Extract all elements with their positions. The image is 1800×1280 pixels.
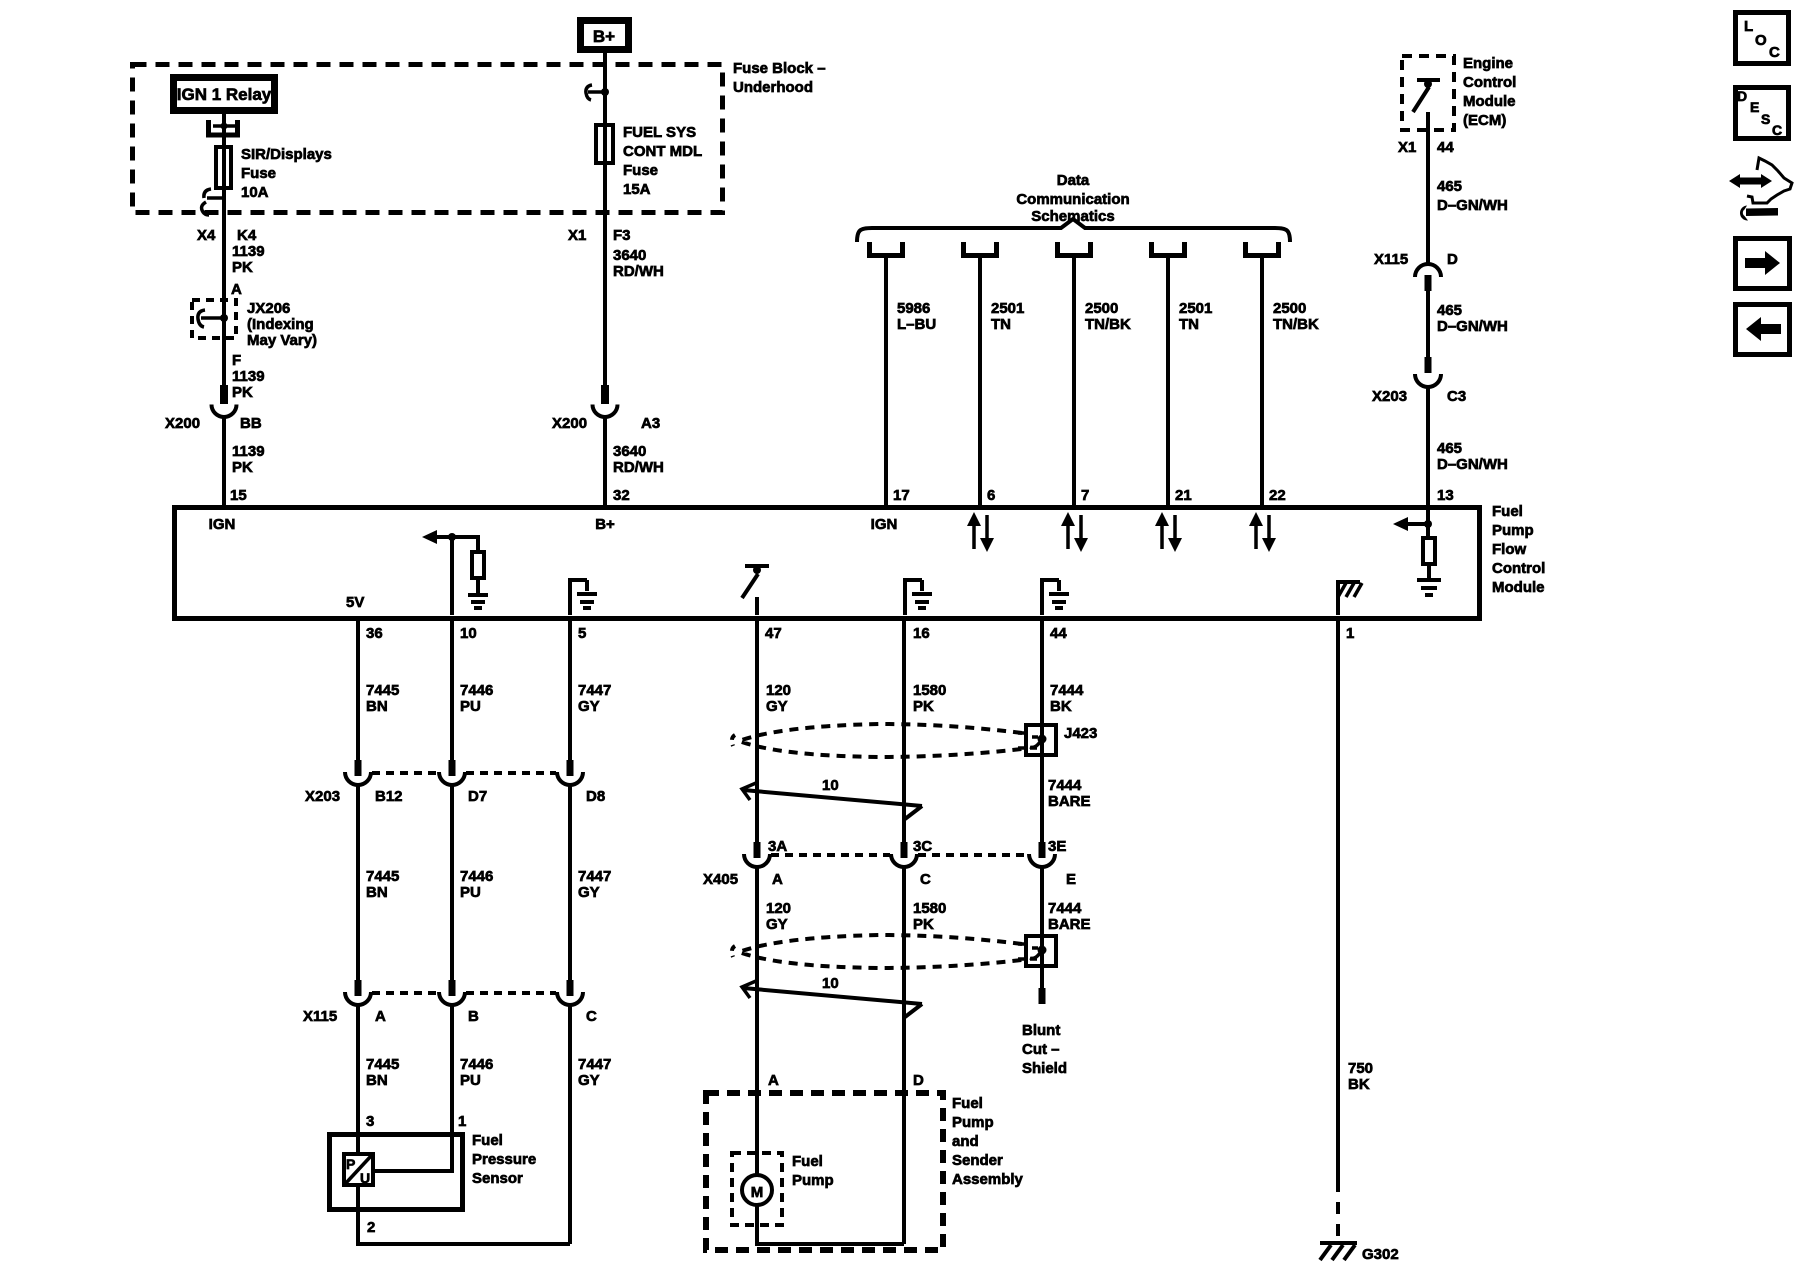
svg-text:SIR/Displays: SIR/Displays: [241, 146, 332, 163]
label Fuse Block Underhood: [733, 60, 826, 96]
label A D above assembly: [768, 1072, 924, 1089]
connector X405 C cup: [891, 854, 917, 867]
label 3A 3C 3E: [768, 838, 1066, 855]
svg-text:Control: Control: [1463, 74, 1516, 91]
label 7447 GY b: [578, 868, 611, 901]
internal sense branch at pin 13: [1393, 510, 1432, 536]
svg-text:1580: 1580: [913, 682, 946, 699]
wire 1580 PK X405 down: [902, 865, 906, 1244]
label JX206 Indexing May Vary: [247, 300, 317, 349]
sensor element P/U square: [344, 1154, 373, 1186]
connector X405 3E tick: [1039, 842, 1046, 858]
svg-text:1580: 1580: [913, 900, 946, 917]
connector X200 BB cup: [212, 405, 237, 418]
svg-text:TN: TN: [991, 316, 1011, 333]
wire 1580 PK pin16 to X405: [902, 621, 906, 843]
internal ground at pin 16: [905, 580, 932, 615]
label X1 44: [1398, 139, 1454, 156]
relay output bracket: [209, 120, 238, 135]
label 7446 PU a: [460, 682, 493, 715]
connector X115 B tick: [449, 980, 456, 996]
svg-text:(ECM): (ECM): [1463, 112, 1506, 129]
svg-text:Sensor: Sensor: [472, 1170, 523, 1187]
svg-text:Fuse: Fuse: [241, 165, 276, 182]
connector X405 3C tick: [901, 842, 908, 858]
svg-text:X115: X115: [1374, 251, 1408, 268]
icon forward arrow box: [1736, 239, 1790, 289]
svg-text:Communication: Communication: [1016, 191, 1129, 208]
svg-text:Engine: Engine: [1463, 55, 1513, 72]
svg-text:BN: BN: [366, 698, 388, 715]
terminal hook at B+ feed: [586, 85, 609, 100]
pin 44 label: [1050, 625, 1067, 642]
internal ground at pin 13: [1417, 564, 1441, 595]
terminal hook below fuse F1: [202, 189, 224, 215]
svg-text:5986: 5986: [897, 300, 930, 317]
label 3640 RD/WH upper: [613, 247, 664, 280]
svg-text:B: B: [468, 1008, 479, 1025]
svg-text:15: 15: [230, 487, 247, 504]
battery feed B+ box: [581, 21, 629, 50]
label X405 A C E: [703, 871, 1076, 888]
connector X115 A cup: [345, 992, 371, 1005]
svg-text:D8: D8: [586, 788, 605, 805]
svg-text:BK: BK: [1348, 1076, 1370, 1093]
svg-text:GY: GY: [578, 884, 600, 901]
twisted pair marker 2: [742, 981, 922, 1017]
svg-text:X1: X1: [568, 227, 586, 244]
internal updown arrows pin 6: [967, 512, 994, 552]
wire 120 GY X405 to pump: [755, 865, 759, 1176]
label 1139 PK upper: [232, 243, 265, 276]
svg-text:Module: Module: [1492, 579, 1545, 596]
connector X203 D8 tick: [567, 760, 574, 776]
label 2501 TN b: [1179, 300, 1212, 333]
svg-text:Cut –: Cut –: [1022, 1041, 1060, 1058]
svg-text:Assembly: Assembly: [952, 1171, 1024, 1188]
svg-text:B12: B12: [375, 788, 403, 805]
data bracket 4: [1152, 242, 1185, 256]
pin 21 label: [1175, 487, 1192, 504]
label X200 BB: [165, 415, 262, 432]
label 120 GY a: [766, 682, 791, 715]
data bracket 2: [964, 242, 997, 256]
svg-text:D: D: [1737, 88, 1747, 104]
svg-text:B+: B+: [595, 516, 615, 533]
port label IGN pin17: [871, 516, 898, 533]
svg-text:A: A: [375, 1008, 386, 1025]
label 7447 GY c: [578, 1056, 611, 1089]
svg-text:465: 465: [1437, 440, 1462, 457]
svg-text:120: 120: [766, 682, 791, 699]
label X203 B12 D7 D8: [305, 788, 605, 805]
svg-text:Underhood: Underhood: [733, 79, 813, 96]
svg-text:(Indexing: (Indexing: [247, 316, 314, 333]
pin 17 label: [893, 487, 910, 504]
svg-text:21: 21: [1175, 487, 1192, 504]
connector X203 C3 male tick: [1425, 357, 1432, 373]
svg-text:X4: X4: [197, 227, 216, 244]
svg-text:7: 7: [1081, 487, 1089, 504]
connector X405 3A tick: [754, 842, 761, 858]
svg-text:Fuel: Fuel: [1492, 503, 1523, 520]
svg-text:5V: 5V: [346, 594, 364, 611]
module Fuel Pump Flow Control Module box: [175, 508, 1480, 619]
label Fuel Pressure Sensor: [472, 1132, 536, 1187]
wire 7446 PU pin10 to X203: [450, 621, 454, 761]
svg-text:7446: 7446: [460, 868, 493, 885]
wire 7444 BK pin44 to X405: [1040, 621, 1044, 843]
svg-text:465: 465: [1437, 302, 1462, 319]
internal switch at pin 47: [742, 566, 769, 615]
switch inside ECM: [1413, 80, 1440, 112]
pin 47 label: [765, 625, 782, 642]
data wire 2500 TN/BK a: [1072, 258, 1076, 507]
svg-text:7445: 7445: [366, 1056, 399, 1073]
shield junction box J423 upper: [1018, 725, 1056, 755]
pin 7 label: [1081, 487, 1089, 504]
svg-text:C: C: [586, 1008, 597, 1025]
svg-text:G302: G302: [1362, 1246, 1399, 1263]
pin 6 label: [987, 487, 995, 504]
wire 7447 GY X115 down to joint: [568, 1003, 572, 1244]
wire 465 D-GN/WH from X115 to X203: [1426, 291, 1430, 357]
label Fuel Pump Flow Control Module: [1492, 503, 1545, 596]
label G302: [1362, 1246, 1399, 1263]
svg-text:BN: BN: [366, 884, 388, 901]
svg-text:15A: 15A: [623, 181, 651, 198]
label 7446 PU b: [460, 868, 493, 901]
svg-text:1: 1: [1346, 625, 1354, 642]
svg-text:A: A: [768, 1072, 779, 1089]
connector X203 C3 cup: [1415, 374, 1441, 387]
icon LOC box: [1736, 13, 1789, 64]
svg-text:A: A: [772, 871, 783, 888]
wire 465 D-GN/WH from X203 to module pin 13: [1426, 385, 1430, 507]
icon back arrow box: [1736, 305, 1790, 355]
internal resistor at pin 13: [1423, 538, 1435, 564]
svg-text:Flow: Flow: [1492, 541, 1526, 558]
svg-text:465: 465: [1437, 178, 1462, 195]
svg-text:7444: 7444: [1050, 682, 1084, 699]
data wire 2500 TN/BK b: [1260, 258, 1264, 507]
wire pump to joint: [757, 1205, 904, 1244]
svg-text:47: 47: [765, 625, 782, 642]
svg-text:A: A: [231, 281, 242, 298]
svg-text:O: O: [1755, 32, 1767, 49]
label 1580 PK a: [913, 682, 946, 715]
pin 5 label: [578, 625, 586, 642]
label 5986 L-BU: [897, 300, 936, 333]
svg-text:5: 5: [578, 625, 586, 642]
wire 7445 BN X203 to X115: [356, 783, 360, 981]
wire 7447 GY pin5 to X203: [568, 621, 572, 761]
wire 750 BK pin1 to G302: [1336, 621, 1340, 1242]
svg-text:Fuel: Fuel: [952, 1095, 983, 1112]
connector X203 D7 cup: [439, 772, 465, 785]
svg-text:S: S: [1761, 111, 1770, 127]
svg-text:7447: 7447: [578, 1056, 611, 1073]
svg-text:36: 36: [366, 625, 383, 642]
relay IGN 1 Relay box: [174, 78, 275, 111]
label 7445 BN c: [366, 1056, 399, 1089]
label 120 GY b: [766, 900, 791, 933]
svg-text:F: F: [232, 352, 241, 369]
svg-text:C3: C3: [1447, 388, 1466, 405]
svg-text:GY: GY: [766, 916, 788, 933]
label 465 D-GN/WH lower: [1437, 440, 1508, 473]
label X203 C3: [1372, 388, 1466, 405]
label 465 D-GN/WH mid: [1437, 302, 1508, 335]
pin 15 label: [230, 487, 247, 504]
svg-text:10: 10: [822, 777, 839, 794]
svg-text:Blunt: Blunt: [1022, 1022, 1060, 1039]
svg-text:IGN 1 Relay: IGN 1 Relay: [177, 85, 272, 104]
svg-text:BN: BN: [366, 1072, 388, 1089]
svg-text:PK: PK: [232, 259, 253, 276]
connector X203 D8 cup: [557, 772, 583, 785]
svg-text:GY: GY: [578, 1072, 600, 1089]
svg-text:J423: J423: [1064, 725, 1097, 742]
wire 3640 RD/WH from X200 to module pin 32: [603, 415, 607, 507]
svg-text:D7: D7: [468, 788, 487, 805]
svg-text:K4: K4: [237, 227, 257, 244]
internal updown arrows pin 21: [1155, 512, 1182, 552]
data bracket 1: [870, 242, 903, 256]
connector X405 E cup: [1029, 854, 1055, 867]
label 10 upper: [822, 777, 839, 794]
svg-text:X115: X115: [303, 1008, 337, 1025]
label FUEL SYS CONT MDL Fuse 15A: [623, 124, 702, 198]
svg-text:PU: PU: [460, 884, 481, 901]
svg-text:TN/BK: TN/BK: [1085, 316, 1131, 333]
svg-text:Shield: Shield: [1022, 1060, 1067, 1077]
svg-text:7445: 7445: [366, 682, 399, 699]
svg-text:1: 1: [458, 1113, 466, 1130]
label 1580 PK b: [913, 900, 946, 933]
svg-text:3: 3: [366, 1113, 374, 1130]
svg-text:Data: Data: [1057, 172, 1090, 189]
label 1139 PK lower: [232, 443, 265, 476]
svg-text:X203: X203: [305, 788, 340, 805]
wire 1139 PK from X200 to module pin 15: [222, 415, 226, 507]
label 2500 TN/BK b: [1273, 300, 1319, 333]
connector X115 D dome: [1415, 264, 1441, 277]
wire 7445 BN X115 to sensor pin 3: [356, 1003, 360, 1152]
label 7444 BARE lower: [1048, 900, 1091, 933]
svg-text:BB: BB: [240, 415, 262, 432]
terminal hook inside JX206: [198, 310, 228, 327]
data wire 5986 L-BU: [884, 258, 888, 507]
label Blunt Cut Shield: [1022, 1022, 1067, 1077]
label 10 lower: [822, 975, 839, 992]
svg-text:750: 750: [1348, 1060, 1373, 1077]
svg-text:2500: 2500: [1273, 300, 1306, 317]
svg-text:X203: X203: [1372, 388, 1407, 405]
svg-text:D–GN/WH: D–GN/WH: [1437, 456, 1508, 473]
svg-text:Pressure: Pressure: [472, 1151, 536, 1168]
svg-text:PK: PK: [232, 459, 253, 476]
svg-text:Fuel: Fuel: [792, 1153, 823, 1170]
connector X115 C cup: [557, 992, 583, 1005]
svg-text:IGN: IGN: [209, 516, 236, 533]
svg-text:7444: 7444: [1048, 900, 1082, 917]
label X4 K4: [197, 227, 257, 244]
label Engine Control Module ECM: [1463, 55, 1516, 129]
wire 465 D-GN/WH from ECM to X115: [1426, 112, 1430, 265]
svg-text:2501: 2501: [1179, 300, 1212, 317]
label 1139 PK mid: [232, 368, 265, 401]
svg-text:BARE: BARE: [1048, 793, 1091, 810]
wire 7446 PU X115 to sensor pin 1: [375, 1003, 452, 1171]
internal 5V reference branch at pin 10: [422, 530, 478, 615]
svg-text:L: L: [1744, 18, 1753, 35]
svg-text:1139: 1139: [232, 443, 265, 460]
wire sensor pin 2 down and right: [358, 1185, 570, 1244]
label X1 F3: [568, 227, 631, 244]
label 7444 BK: [1050, 682, 1084, 715]
svg-text:IGN: IGN: [871, 516, 898, 533]
fuse block underhood dashed enclosure: [133, 65, 723, 213]
svg-text:6: 6: [987, 487, 995, 504]
fuse F1 SIR/Displays 10A: [216, 147, 231, 188]
sensor Fuel Pressure Sensor box: [330, 1135, 463, 1210]
label 750 BK: [1348, 1060, 1373, 1093]
shield ellipse 2 dashed: [732, 935, 1022, 968]
data wire 2501 TN b: [1166, 258, 1170, 507]
dashed link X405 row: [771, 853, 1028, 857]
svg-text:U: U: [360, 1170, 370, 1186]
svg-text:16: 16: [913, 625, 930, 642]
svg-text:22: 22: [1269, 487, 1286, 504]
terminal A label: [231, 281, 242, 298]
connector X405 A cup: [744, 854, 770, 867]
fuel pump inner dashed box: [732, 1153, 782, 1225]
data bracket 5: [1246, 242, 1279, 256]
connector X115 C tick: [567, 980, 574, 996]
connector X200 A3 male tick: [601, 385, 609, 404]
connector X115 B cup: [439, 992, 465, 1005]
sensor pin 1 label: [458, 1113, 466, 1130]
twisted pair marker 1: [742, 783, 922, 819]
svg-text:2: 2: [367, 1219, 375, 1236]
svg-text:BARE: BARE: [1048, 916, 1091, 933]
data wire 2501 TN a: [978, 258, 982, 507]
label 465 D-GN/WH upper: [1437, 178, 1508, 214]
shield ellipse 1 dashed: [732, 724, 1022, 757]
fuse F3 FUEL SYS CONT MDL 15A: [596, 125, 613, 163]
svg-text:D: D: [913, 1072, 924, 1089]
svg-text:2500: 2500: [1085, 300, 1118, 317]
svg-text:7446: 7446: [460, 682, 493, 699]
svg-text:Pump: Pump: [792, 1172, 834, 1189]
svg-text:D–GN/WH: D–GN/WH: [1437, 197, 1508, 214]
svg-text:10A: 10A: [241, 184, 269, 201]
wire 120 GY pin47 to X405: [755, 621, 759, 843]
ground G302 chassis symbol: [1320, 1243, 1357, 1260]
svg-text:E: E: [1066, 871, 1076, 888]
label 7447 GY a: [578, 682, 611, 715]
connector X203 B12 tick: [355, 760, 362, 776]
pin 13 label: [1437, 487, 1454, 504]
wire 7444 BARE X405 to blunt cut: [1040, 865, 1044, 988]
port label B+ pin32: [595, 516, 615, 533]
svg-text:Sender: Sender: [952, 1152, 1003, 1169]
svg-text:RD/WH: RD/WH: [613, 459, 664, 476]
pin 10 label: [460, 625, 477, 642]
svg-text:JX206: JX206: [247, 300, 290, 317]
icon vehicle with double arrow and wrench: [1729, 158, 1792, 221]
label 2500 TN/BK a: [1085, 300, 1131, 333]
svg-text:PU: PU: [460, 1072, 481, 1089]
label J423: [1064, 725, 1097, 742]
svg-text:3C: 3C: [913, 838, 932, 855]
svg-text:RD/WH: RD/WH: [613, 263, 664, 280]
svg-text:A3: A3: [641, 415, 660, 432]
svg-text:X200: X200: [552, 415, 587, 432]
svg-text:FUEL SYS: FUEL SYS: [623, 124, 696, 141]
svg-text:Fuse: Fuse: [623, 162, 658, 179]
svg-text:B+: B+: [593, 27, 615, 46]
internal ground at pin 44: [1042, 580, 1069, 615]
terminal F label: [232, 352, 241, 369]
splice JX206 dashed box: [192, 300, 236, 338]
label Fuel Pump inner: [792, 1153, 834, 1189]
svg-text:2501: 2501: [991, 300, 1024, 317]
internal ground under resistor pin 10: [468, 578, 488, 608]
internal resistor at pin 10: [472, 552, 484, 578]
shield junction box J423 lower: [1018, 936, 1056, 966]
svg-text:Fuel: Fuel: [472, 1132, 503, 1149]
wire 7445 BN pin36 to X203: [356, 621, 360, 761]
module ECM dashed box: [1402, 56, 1454, 130]
pin 1 label: [1346, 625, 1354, 642]
label 7446 PU c: [460, 1056, 493, 1089]
svg-text:PK: PK: [232, 384, 253, 401]
svg-text:May Vary): May Vary): [247, 332, 317, 349]
svg-text:Control: Control: [1492, 560, 1545, 577]
assembly Fuel Pump and Sender dashed box: [706, 1093, 943, 1250]
wire 3640 RD/WH from B+ to X200: [603, 50, 607, 386]
connector X203 B12 cup: [345, 772, 371, 785]
label Data Communication Schematics: [1016, 172, 1129, 225]
svg-text:D–GN/WH: D–GN/WH: [1437, 318, 1508, 335]
label X200 A3: [552, 415, 660, 432]
svg-text:C: C: [1769, 44, 1780, 61]
svg-text:TN/BK: TN/BK: [1273, 316, 1319, 333]
label SIR/Displays Fuse 10A: [241, 146, 332, 201]
svg-text:7445: 7445: [366, 868, 399, 885]
svg-text:CONT MDL: CONT MDL: [623, 143, 702, 160]
svg-text:44: 44: [1050, 625, 1067, 642]
svg-text:3A: 3A: [768, 838, 787, 855]
svg-text:7447: 7447: [578, 682, 611, 699]
sensor pin 3 label: [366, 1113, 374, 1130]
svg-text:L–BU: L–BU: [897, 316, 936, 333]
svg-text:13: 13: [1437, 487, 1454, 504]
label X115 D: [1374, 251, 1458, 268]
svg-text:1139: 1139: [232, 243, 265, 260]
label 7445 BN a: [366, 682, 399, 715]
svg-text:PK: PK: [913, 916, 934, 933]
svg-text:BK: BK: [1050, 698, 1072, 715]
svg-text:TN: TN: [1179, 316, 1199, 333]
svg-text:P: P: [346, 1156, 355, 1172]
internal chassis ground at pin 1: [1338, 582, 1362, 615]
svg-text:GY: GY: [578, 698, 600, 715]
label Fuel Pump and Sender Assembly: [952, 1095, 1024, 1188]
wire 7447 GY X203 to X115: [568, 783, 572, 981]
